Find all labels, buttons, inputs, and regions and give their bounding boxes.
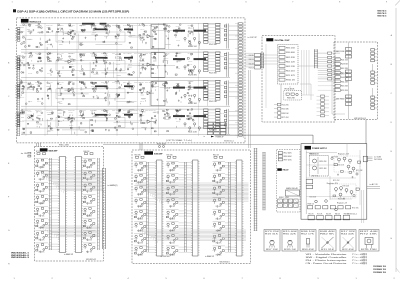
svg-text:R17 32K: R17 32K bbox=[341, 231, 355, 233]
capacitor bank C901 bbox=[278, 197, 298, 207]
wire fan SURROUND(2) bbox=[136, 183, 249, 204]
svg-text:R71 7K: R71 7K bbox=[69, 125, 73, 127]
svg-text:R41 33K: R41 33K bbox=[166, 225, 170, 227]
svg-text:R82 21K: R82 21K bbox=[104, 54, 108, 56]
transistor Q217 stage bbox=[134, 162, 157, 173]
svg-text:R65 43K: R65 43K bbox=[59, 145, 69, 147]
svg-text:R53 36K: R53 36K bbox=[285, 89, 295, 91]
svg-text:R12 41K: R12 41K bbox=[333, 180, 340, 182]
capacitor C110 group bbox=[115, 25, 121, 45]
svg-text:R54 29K: R54 29K bbox=[80, 82, 84, 84]
grid reference ticks left bbox=[8, 28, 10, 266]
connector CN405 bbox=[224, 109, 243, 134]
transistor Q235 stage bbox=[212, 186, 236, 197]
connector CN811 input header bbox=[84, 151, 94, 155]
svg-text:R41 13K: R41 13K bbox=[80, 117, 84, 119]
svg-text:R13 5K: R13 5K bbox=[176, 68, 180, 70]
resistor R106 group bbox=[69, 24, 76, 44]
capacitor C158 group bbox=[115, 109, 121, 131]
wire to POWER with arrow bbox=[204, 135, 224, 138]
svg-text:R60 2K: R60 2K bbox=[213, 155, 219, 157]
svg-text:XM09 7A 01: XM09 7A 01 bbox=[377, 14, 387, 17]
svg-text:MAIN AMP: MAIN AMP bbox=[49, 149, 59, 152]
svg-text:R11 22K: R11 22K bbox=[35, 222, 39, 224]
svg-text:R95 16K: R95 16K bbox=[176, 121, 180, 123]
transistor Q215 stage bbox=[83, 231, 96, 242]
connector CN011 edge column bbox=[235, 23, 242, 137]
svg-text:R75 40K: R75 40K bbox=[104, 68, 108, 70]
svg-text:R20 11K: R20 11K bbox=[37, 54, 41, 56]
svg-text:R26 45K: R26 45K bbox=[104, 60, 108, 62]
svg-text:R88 1K: R88 1K bbox=[116, 83, 120, 85]
resistor R146 group bbox=[163, 81, 170, 103]
IC U303 outline bbox=[151, 81, 165, 106]
wire DSP to MAIN(2) link bbox=[332, 70, 345, 114]
svg-text:R24 15K: R24 15K bbox=[341, 59, 348, 61]
svg-text:R83 21K: R83 21K bbox=[188, 25, 192, 27]
IC value label row 3 left bbox=[95, 85, 133, 87]
svg-text:R47 27K: R47 27K bbox=[47, 32, 51, 34]
regulator sub-circuit outline upper bbox=[334, 156, 360, 172]
svg-text:R38 35K: R38 35K bbox=[28, 89, 32, 91]
capacitor C128 group bbox=[139, 54, 146, 74]
connector CN862 input header bbox=[213, 155, 223, 159]
svg-text:R42 9K: R42 9K bbox=[249, 55, 254, 57]
svg-text:R90 17K: R90 17K bbox=[134, 201, 138, 203]
svg-text:MAIN(1) 1/2: MAIN(1) 1/2 bbox=[30, 20, 42, 23]
connector CN bank outside DSP bbox=[249, 54, 261, 70]
svg-text:R36 15K: R36 15K bbox=[335, 214, 340, 216]
svg-text:R43 19K: R43 19K bbox=[80, 72, 84, 74]
capacitor C121 group bbox=[57, 54, 63, 77]
transistor Q208 stage bbox=[35, 243, 59, 254]
svg-text:R51 6K: R51 6K bbox=[35, 162, 39, 164]
parts code table bbox=[377, 9, 387, 17]
connector CN101 input bbox=[15, 28, 20, 42]
svg-text:R25 15K: R25 15K bbox=[20, 25, 24, 27]
svg-text:R47 29K: R47 29K bbox=[83, 186, 87, 188]
transistor Q226 stage bbox=[166, 174, 193, 185]
svg-text:R97 12K: R97 12K bbox=[58, 40, 62, 42]
svg-text:R74 44K: R74 44K bbox=[86, 203, 92, 205]
wire fan SURROUND(2) lower bbox=[140, 230, 246, 243]
transistor Q202 stage bbox=[35, 171, 59, 182]
svg-text:R28 7K: R28 7K bbox=[57, 81, 64, 83]
svg-text:R18 37K: R18 37K bbox=[80, 44, 84, 46]
svg-text:R19 31K: R19 31K bbox=[265, 233, 278, 235]
svg-text:R61 22K: R61 22K bbox=[286, 61, 295, 63]
wire POWER internal rail bbox=[306, 144, 360, 214]
svg-text:R43 24K: R43 24K bbox=[166, 165, 170, 167]
connector CN850 board link bbox=[102, 168, 106, 249]
capacitor C163 group bbox=[175, 109, 182, 128]
svg-text:R20 38K: R20 38K bbox=[216, 182, 222, 184]
svg-text:R15 40K: R15 40K bbox=[283, 231, 297, 233]
resistor R120 group bbox=[47, 53, 53, 76]
op-amp U32 bbox=[147, 91, 154, 94]
capacitor C147 group bbox=[175, 82, 182, 102]
svg-text:V2098 10: V2098 10 bbox=[373, 266, 387, 268]
svg-text:R75 5K: R75 5K bbox=[282, 117, 289, 119]
board outline DSP bbox=[262, 36, 335, 123]
capacitor C105 group bbox=[57, 24, 64, 45]
svg-text:R91 9K: R91 9K bbox=[134, 177, 138, 179]
page fold line bbox=[395, 0, 400, 272]
svg-text:R35 31K: R35 31K bbox=[128, 101, 132, 103]
svg-text:R69 38K: R69 38K bbox=[104, 36, 108, 38]
svg-text:R78 10K: R78 10K bbox=[28, 111, 32, 113]
svg-text:R63 35K: R63 35K bbox=[92, 59, 96, 61]
transistor Q222 stage bbox=[134, 222, 157, 233]
svg-text:R66 11K: R66 11K bbox=[152, 54, 156, 56]
svg-text:R20 2K: R20 2K bbox=[320, 161, 327, 163]
op-amp U42 bbox=[147, 120, 154, 123]
svg-text:R60 26K: R60 26K bbox=[128, 53, 132, 55]
svg-text:DIGITAL DSP: DIGITAL DSP bbox=[275, 39, 291, 42]
capacitor C112 group bbox=[139, 23, 147, 44]
svg-text:R18 14K: R18 14K bbox=[140, 68, 144, 70]
transistor Q239 stage bbox=[212, 234, 236, 245]
svg-text:R17 6K: R17 6K bbox=[134, 213, 138, 215]
transistor Q234 stage bbox=[212, 174, 236, 185]
resistor R109 group bbox=[103, 25, 111, 43]
legend box NPN package bbox=[264, 230, 280, 252]
svg-text:R29 36K: R29 36K bbox=[220, 84, 224, 86]
transistor Q237 stage bbox=[212, 210, 236, 221]
wire fan SURROUND(1) bbox=[38, 171, 103, 194]
svg-text:R82 9K: R82 9K bbox=[320, 233, 334, 235]
resistor R114 group bbox=[163, 24, 170, 45]
svg-text:R72 19K: R72 19K bbox=[360, 233, 377, 235]
transistor Q156 group bbox=[91, 110, 99, 132]
svg-text:R33 1K: R33 1K bbox=[169, 206, 175, 208]
capacitor C126 group bbox=[115, 54, 122, 76]
svg-text:R67 26K: R67 26K bbox=[37, 61, 41, 63]
transistor Q113 group bbox=[151, 25, 157, 47]
svg-text:R80 18K: R80 18K bbox=[47, 72, 51, 74]
resistor R111 group bbox=[127, 24, 135, 48]
wire MAIN(1) to DSP rows bbox=[245, 53, 254, 67]
regulator IC U901 row bbox=[308, 200, 351, 211]
svg-text:R61 6K: R61 6K bbox=[152, 87, 156, 89]
svg-text:R77 14K: R77 14K bbox=[86, 191, 92, 193]
svg-text:R10 6K: R10 6K bbox=[169, 242, 175, 244]
svg-text:R85 12K: R85 12K bbox=[80, 60, 84, 62]
wire POWER board down lead bbox=[362, 190, 364, 223]
connector CN910 AC out bbox=[363, 156, 372, 162]
capacitor C144 group bbox=[139, 82, 146, 105]
label to SUB WOOFER bbox=[374, 156, 383, 162]
svg-text:R97 19K: R97 19K bbox=[266, 249, 278, 251]
svg-text:R77 5K: R77 5K bbox=[312, 176, 319, 178]
svg-text:R68 24K: R68 24K bbox=[116, 25, 120, 27]
svg-text:R33 45K: R33 45K bbox=[128, 25, 132, 27]
connector CN901 bank bbox=[278, 152, 291, 162]
svg-text:R30 46K: R30 46K bbox=[286, 52, 295, 54]
svg-text:R74 9K: R74 9K bbox=[20, 121, 24, 123]
legend box DIO package bbox=[319, 230, 336, 252]
svg-text:R45 33K: R45 33K bbox=[166, 213, 170, 215]
svg-text:R81 9K: R81 9K bbox=[47, 26, 51, 28]
svg-text:R41 32K: R41 32K bbox=[310, 197, 317, 199]
svg-text:DSP-A1 DSP-A1(M) OVERALL CIRCU: DSP-A1 DSP-A1(M) OVERALL CIRCUIT DIAGRAM… bbox=[17, 9, 129, 13]
board name tag RELAY bbox=[277, 168, 289, 171]
svg-text:R75 37K: R75 37K bbox=[36, 151, 42, 153]
capacitor C102 group bbox=[27, 24, 35, 46]
svg-text:R33 39K: R33 39K bbox=[37, 115, 41, 117]
svg-text:R16 12K: R16 12K bbox=[83, 162, 87, 164]
resistor R125 group bbox=[103, 53, 111, 75]
svg-text:R67 36K: R67 36K bbox=[92, 115, 96, 117]
svg-text:R23 38K: R23 38K bbox=[69, 26, 73, 28]
svg-text:R23 1K: R23 1K bbox=[164, 53, 168, 55]
svg-text:R64 44K: R64 44K bbox=[341, 81, 348, 83]
svg-text:R85 3K: R85 3K bbox=[166, 250, 170, 252]
svg-text:R52 41K: R52 41K bbox=[37, 83, 41, 85]
wire row 1 signal bus bbox=[21, 24, 230, 50]
svg-text:R97 35K: R97 35K bbox=[104, 26, 108, 28]
resistor R133 group bbox=[20, 80, 27, 105]
svg-text:R99 17K: R99 17K bbox=[20, 85, 24, 87]
connector CN301 input bbox=[15, 84, 20, 98]
svg-text:R76 17K: R76 17K bbox=[152, 110, 156, 112]
transistor Q227 stage bbox=[166, 186, 193, 197]
transistor Q210 stage bbox=[83, 171, 96, 182]
svg-text:R45 31K: R45 31K bbox=[58, 101, 62, 103]
svg-text:R90 15K: R90 15K bbox=[212, 165, 216, 167]
svg-text:R29 35K: R29 35K bbox=[341, 90, 348, 92]
transistor Q49 output pair bbox=[184, 123, 201, 134]
svg-text:R93 45K: R93 45K bbox=[302, 249, 314, 251]
capacitor C118 group bbox=[27, 53, 34, 75]
svg-text:R46 39K: R46 39K bbox=[137, 242, 143, 244]
svg-text:R53 14K: R53 14K bbox=[104, 87, 108, 89]
connector CN409 power bbox=[207, 122, 225, 134]
svg-text:R48 16K: R48 16K bbox=[116, 33, 120, 35]
resistor array RA601 bbox=[318, 52, 340, 80]
svg-text:R40 8K: R40 8K bbox=[84, 151, 90, 153]
svg-text:R77 32K: R77 32K bbox=[140, 25, 144, 27]
board name tag SURROUND(1) bbox=[40, 148, 58, 152]
svg-text:R36 32K: R36 32K bbox=[92, 32, 96, 34]
svg-text:R16 30K: R16 30K bbox=[116, 59, 120, 61]
svg-text:R17 13K: R17 13K bbox=[140, 58, 144, 60]
transistor Q207 stage bbox=[35, 231, 59, 242]
svg-text:R73 35K: R73 35K bbox=[157, 143, 166, 145]
svg-text:R92 43K: R92 43K bbox=[220, 113, 224, 115]
capacitor C150 group bbox=[27, 111, 34, 133]
legend box REG package bbox=[300, 230, 316, 252]
svg-text:R30 11K: R30 11K bbox=[164, 83, 168, 85]
svg-text:R98 12K: R98 12K bbox=[35, 174, 39, 176]
sheet title text bbox=[13, 9, 129, 13]
svg-text:R44 40K: R44 40K bbox=[35, 234, 39, 236]
svg-text:R77 20K: R77 20K bbox=[145, 81, 152, 83]
transistor Q213 stage bbox=[83, 207, 96, 218]
connector CN702 group bbox=[335, 48, 352, 59]
transformer T901 bbox=[309, 154, 328, 176]
svg-text:WOOFER: WOOFER bbox=[374, 159, 383, 161]
svg-text:R68 12K: R68 12K bbox=[134, 250, 138, 252]
svg-text:R29 15K: R29 15K bbox=[69, 58, 73, 60]
svg-text:R17 40K: R17 40K bbox=[92, 25, 96, 27]
op-amp U22 bbox=[147, 63, 154, 66]
connector CN201 input bbox=[15, 56, 20, 70]
wire row 4 signal bus bbox=[21, 109, 230, 135]
svg-text:R11 31K: R11 31K bbox=[321, 249, 334, 251]
svg-text:R44 44K: R44 44K bbox=[341, 233, 354, 235]
svg-text:R40 47K: R40 47K bbox=[326, 214, 331, 216]
svg-text:R26 3K: R26 3K bbox=[39, 252, 45, 254]
transistor Q219 stage bbox=[134, 186, 157, 197]
svg-text:R93 30K: R93 30K bbox=[344, 214, 349, 216]
svg-text:R43 1K: R43 1K bbox=[338, 199, 345, 201]
svg-text:R86 31K: R86 31K bbox=[188, 89, 192, 91]
svg-text:R77 9K: R77 9K bbox=[46, 110, 53, 112]
svg-text:R37 2K: R37 2K bbox=[68, 110, 75, 112]
transistor Q161 group bbox=[151, 110, 159, 132]
wire vertical bus right of MAIN(1) bbox=[238, 23, 243, 139]
connector CN714 group bbox=[371, 96, 378, 109]
svg-text:VR : Variable Resistor: VR : Variable Resistor bbox=[306, 253, 348, 256]
transistor Q231 stage bbox=[166, 234, 193, 245]
svg-text:R84 46K: R84 46K bbox=[284, 156, 292, 158]
wire stubs MAIN(1) to surround boards bbox=[37, 143, 143, 150]
transistor Q204 stage bbox=[35, 195, 59, 206]
svg-text:R83 41K: R83 41K bbox=[69, 29, 73, 31]
svg-text:R11 32K: R11 32K bbox=[80, 55, 84, 57]
svg-text:R48 40K: R48 40K bbox=[320, 231, 335, 233]
svg-text:R32 10K: R32 10K bbox=[47, 114, 51, 116]
board outline SURROUND(1) bbox=[35, 147, 104, 262]
svg-text:V2098 10: V2098 10 bbox=[373, 269, 387, 271]
svg-text:R10 10K: R10 10K bbox=[92, 54, 96, 56]
wire row 3 signal bus bbox=[21, 81, 230, 107]
IC M5203 connector column SURROUND(2) bbox=[155, 160, 164, 256]
svg-text:R74 37K: R74 37K bbox=[212, 250, 216, 252]
wire row 1 feedback loop bbox=[22, 31, 199, 50]
connector CN603 bank bbox=[274, 103, 289, 119]
connector bank CN701 bbox=[318, 58, 348, 92]
svg-text:R38 40K: R38 40K bbox=[37, 88, 41, 90]
board outline POWER bbox=[301, 144, 367, 220]
svg-text:R16 9K: R16 9K bbox=[134, 189, 138, 191]
op-amp U21 bbox=[65, 60, 72, 63]
transistor Q216 stage bbox=[83, 243, 96, 254]
svg-text:R86 10K: R86 10K bbox=[301, 231, 315, 233]
svg-text:R29 38K: R29 38K bbox=[176, 82, 180, 84]
svg-text:POWER SUPPLY: POWER SUPPLY bbox=[312, 148, 328, 150]
svg-text:R67 7K: R67 7K bbox=[86, 252, 92, 254]
svg-text:R89 19K: R89 19K bbox=[282, 113, 289, 115]
svg-text:R83 38K: R83 38K bbox=[28, 30, 32, 32]
transistor Q218 stage bbox=[134, 174, 157, 185]
capacitor C137 group bbox=[57, 81, 64, 103]
svg-text:R13 5K: R13 5K bbox=[104, 111, 108, 113]
transistor Q223 stage bbox=[134, 234, 157, 245]
svg-text:R86 4K: R86 4K bbox=[152, 72, 156, 74]
resistor array RA31 bbox=[204, 80, 225, 103]
wire row 4 lower bus bbox=[22, 127, 240, 129]
svg-text:R68 29K: R68 29K bbox=[287, 98, 295, 100]
IC M5202 connector column SURROUND(1) bbox=[74, 157, 83, 253]
svg-text:R20 15K: R20 15K bbox=[92, 82, 96, 84]
svg-text:R21 43K: R21 43K bbox=[356, 170, 363, 172]
svg-text:R75 41K: R75 41K bbox=[212, 225, 216, 227]
capacitor C134 group bbox=[27, 82, 35, 103]
transistor Q19 output pair bbox=[184, 37, 201, 48]
board name tag SURROUND(2) bbox=[144, 151, 163, 155]
wire bus MAIN(1) to POWER board bbox=[215, 135, 314, 144]
svg-text:SUB AMP: SUB AMP bbox=[154, 153, 163, 156]
wire bus MAIN(2) to POWER board bbox=[365, 120, 367, 144]
svg-text:R12 29K: R12 29K bbox=[37, 111, 41, 113]
svg-text:R37 43K: R37 43K bbox=[188, 117, 192, 119]
resistor R149 group bbox=[19, 110, 25, 135]
IC U601 DSP with pin rows bbox=[278, 45, 299, 85]
svg-text:R20 12K: R20 12K bbox=[69, 52, 73, 54]
connector CN604 column bbox=[317, 95, 330, 117]
svg-text:R60 33K: R60 33K bbox=[135, 155, 141, 157]
svg-text:R87 15K: R87 15K bbox=[39, 215, 45, 217]
svg-text:R65 33K: R65 33K bbox=[286, 57, 295, 59]
svg-text:R35 20K: R35 20K bbox=[86, 179, 92, 181]
transistor Q905 regulator group bbox=[333, 187, 359, 200]
resistor R141 group bbox=[104, 81, 111, 105]
resistor array RA11 bbox=[204, 24, 225, 47]
transistor Q129 group bbox=[151, 52, 157, 74]
transistor Q230 stage bbox=[166, 222, 193, 233]
connector CN105 bbox=[224, 24, 243, 49]
svg-text:R81 13K: R81 13K bbox=[152, 118, 156, 120]
svg-text:R17 14K: R17 14K bbox=[20, 60, 24, 62]
svg-text:R88 33K: R88 33K bbox=[116, 112, 120, 114]
transistor Q108 group bbox=[91, 23, 97, 40]
transistor Q240 stage bbox=[212, 246, 236, 257]
svg-text:R97 25K: R97 25K bbox=[58, 59, 62, 61]
capacitor C153 group bbox=[57, 110, 65, 131]
component value labels POWER bbox=[308, 154, 363, 210]
svg-text:R54 39K: R54 39K bbox=[209, 44, 217, 46]
wire DSP internal runs bbox=[264, 44, 314, 108]
IC value label row 2 right bbox=[173, 58, 206, 60]
diode bridge D901 bbox=[306, 179, 313, 188]
svg-text:R32 18K: R32 18K bbox=[83, 198, 87, 200]
svg-text:R78 44K: R78 44K bbox=[343, 186, 350, 188]
connector CN703 group bbox=[335, 70, 352, 81]
svg-text:R30 18K: R30 18K bbox=[167, 155, 173, 157]
sheet code bottom right bbox=[373, 266, 387, 274]
svg-text:R83 20K: R83 20K bbox=[128, 36, 132, 38]
connector CN305 bbox=[224, 80, 243, 105]
svg-text:R19 36K: R19 36K bbox=[176, 40, 180, 42]
svg-text:R10 10K: R10 10K bbox=[47, 112, 51, 114]
connector CN205 bbox=[224, 52, 243, 77]
relay RY901 bbox=[286, 187, 300, 196]
svg-text:R41 45K: R41 45K bbox=[134, 237, 138, 239]
svg-text:R49 36K: R49 36K bbox=[58, 31, 62, 33]
resistor R164 group bbox=[187, 109, 194, 132]
label input SURROUND(1) bbox=[21, 152, 31, 157]
svg-text:R54 42K: R54 42K bbox=[116, 92, 120, 94]
transistor Q103 group bbox=[36, 23, 43, 48]
wire fan SURROUND(1) lower bbox=[41, 226, 100, 239]
resistor R154 group bbox=[68, 112, 75, 134]
resistor R148 group bbox=[187, 81, 194, 103]
transistor Q145 group bbox=[151, 81, 159, 101]
board outline MAIN(2) right section bbox=[334, 42, 378, 120]
wire vertical rails MAIN(1) bbox=[26, 23, 199, 136]
